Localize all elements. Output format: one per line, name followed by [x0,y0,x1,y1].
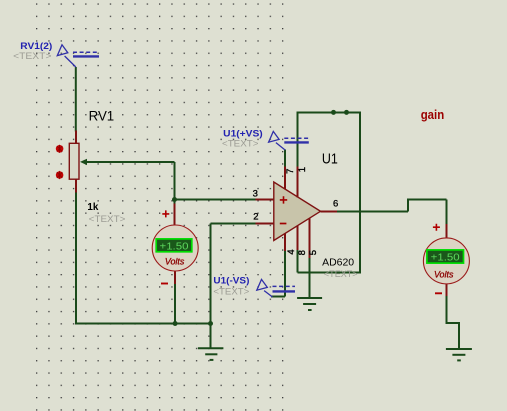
svg-text:3: 3 [253,189,258,200]
wire: pin2 horizontal [211,223,256,225]
pin 6 stub [321,210,338,212]
svg-text:gain: gain [421,108,445,122]
wire: output jog up [407,199,409,211]
voltmeter 1 pin top [174,204,176,227]
svg-text:1k: 1k [87,201,98,213]
junction node A (pin3 tee) [172,197,177,202]
svg-text:6: 6 [333,198,338,209]
junction node D (gain rail dot 1) [331,110,336,115]
wire: pin3 horizontal [175,199,256,201]
svg-text:<TEXT>: <TEXT> [89,214,126,225]
svg-text:+1.50: +1.50 [160,242,189,253]
svg-text:<TEXT>: <TEXT> [213,286,249,297]
wire: pin2 corner vertical [210,224,212,324]
voltmeter 1 pin bottom [174,270,176,284]
op-amp U1 AD620 body [274,182,321,241]
svg-text:5: 5 [308,250,319,255]
svg-text:4: 4 [286,249,297,254]
voltmeter 1 minus marker [161,283,168,285]
wire: +VS terminal drop to pin7 [284,149,286,167]
svg-text:Volts: Volts [165,256,185,267]
wire: ground stem middle [210,324,212,348]
voltmeter 1 plus marker [162,210,169,217]
wire: gain right vertical [359,112,361,273]
wire: output top run to meter2 [407,198,447,200]
svg-text:+1.50: +1.50 [431,253,460,264]
wire: wiper down to meter [174,162,176,213]
voltmeter 2 minus marker [435,292,442,294]
wire: pot bottom to lower rail [75,192,77,325]
pin: RV1 bottom pin [75,179,77,192]
svg-text:U1(-VS): U1(-VS) [213,275,249,286]
wire: -VS terminal stub [271,296,285,298]
pin 8 stub [297,226,299,251]
svg-text:1: 1 [297,167,308,172]
svg-text:8: 8 [297,250,308,255]
resistor RV1 (potentiometer body) [69,143,79,179]
svg-text:7: 7 [285,169,296,174]
junction node E (gain rail dot 2) [344,110,349,115]
marker RV1 pin dot 1 [56,145,64,153]
pin: RV1 top pin [75,131,77,144]
pin 1 stub [297,167,299,198]
pin 4 stub [284,234,286,251]
svg-text:<TEXT>: <TEXT> [222,139,259,150]
svg-text:AD620: AD620 [322,258,354,269]
wire: pin8 down to rail [297,249,299,272]
terminal U1(+VS) [269,131,309,150]
svg-text:Volts: Volts [434,269,454,280]
voltmeter 1 [152,225,198,271]
svg-text:U1: U1 [322,150,338,167]
svg-text:<TEXT>: <TEXT> [324,269,358,280]
wire: output horizontal [336,210,408,212]
svg-text:<TEXT>: <TEXT> [13,51,52,62]
wire: meter1 bottom down [174,283,176,324]
svg-text:2: 2 [253,212,258,223]
wire: gain top rail [297,111,361,113]
terminal U1(-VS) [257,279,295,297]
pin 3 stub [255,199,273,201]
pin 7 stub [284,167,286,190]
wire: wiper horizontal [80,159,175,165]
wire: gain bottom rail [298,271,360,273]
wire: meter2 ground jog [446,323,459,349]
pin 2 stub [255,223,273,225]
svg-text:RV1: RV1 [89,109,115,124]
voltmeter 2 pin bottom [446,283,448,296]
voltmeter 2 [423,238,469,284]
junction node C (ground tee) [208,321,213,326]
terminal RV1(2) [57,45,99,67]
wire: pin4 down to -VS [284,250,286,297]
pin 5 stub [309,218,311,258]
junction node B (meter1 bottom) [173,321,178,326]
wire: pin1 up to rail [297,112,299,166]
wire: meter2 bottom down [446,295,448,323]
ground (right) [446,349,472,360]
wire: pin5 down to ground [309,257,311,298]
voltmeter 2 plus marker [433,224,440,231]
ground (pin5 REF) [297,298,322,310]
wire: meter2 top drop [446,199,448,225]
voltmeter 2 pin top [446,224,448,239]
wire: terminal to pot top [75,67,77,132]
wire: lower horizontal rail [75,323,212,325]
ground (middle) [198,348,224,360]
marker RV1 pin dot 2 [56,171,64,179]
